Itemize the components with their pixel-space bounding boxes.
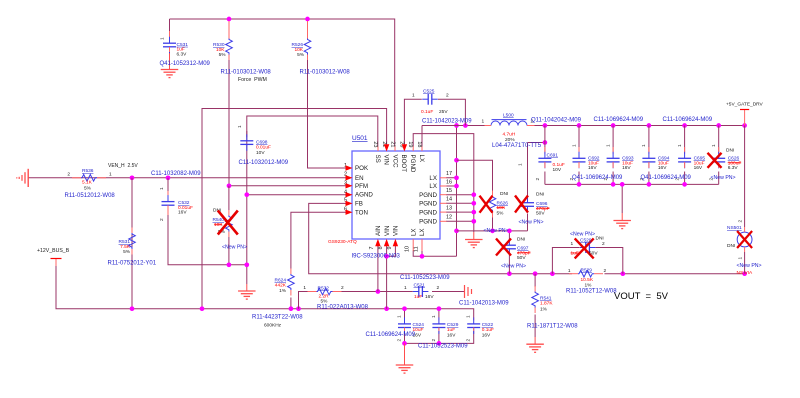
svg-text:19: 19 (407, 141, 413, 147)
ground right of C521 (432, 291, 464, 293)
svg-text:<New PN>: <New PN> (222, 245, 247, 251)
svg-text:16V: 16V (447, 333, 456, 339)
svg-text:13: 13 (446, 206, 452, 212)
wire R531 column (131, 178, 133, 309)
svg-text:2: 2 (341, 285, 344, 291)
svg-text:1: 1 (677, 144, 683, 147)
svg-text:NS501: NS501 (727, 225, 742, 231)
svg-text:R11-0512012-W08: R11-0512012-W08 (65, 193, 116, 199)
resistor R531 (131, 228, 133, 234)
svg-text:VEN_H 2.5V: VEN_H 2.5V (108, 163, 138, 169)
wire FB / VOUT rail (309, 203, 745, 273)
svg-text:10K: 10K (497, 205, 506, 211)
capacitor C532 (167, 191, 169, 198)
svg-text:LX: LX (429, 183, 437, 190)
wire C525 loop (404, 99, 465, 146)
wire VCC top rail (170, 19, 395, 147)
svg-text:<New PN>: <New PN> (737, 263, 762, 269)
svg-text:2: 2 (397, 339, 403, 342)
svg-text:TON: TON (355, 209, 368, 216)
svg-text:AIN: AIN (375, 226, 382, 236)
svg-text:16V: 16V (622, 165, 631, 171)
svg-text:<New PN>: <New PN> (570, 231, 595, 237)
svg-text:11: 11 (413, 246, 419, 252)
svg-text:C520: C520 (580, 237, 592, 243)
svg-text:18: 18 (416, 141, 422, 147)
svg-text:PGND: PGND (419, 219, 437, 226)
chassis ground left (27, 169, 29, 187)
capacitor C692 (578, 147, 580, 154)
svg-text:FB: FB (355, 201, 363, 208)
svg-text:R532: R532 (318, 285, 330, 291)
wire SS loop (247, 116, 378, 147)
svg-text:1: 1 (711, 144, 717, 147)
svg-text:16V: 16V (425, 294, 434, 300)
svg-text:<New PN>: <New PN> (711, 175, 736, 181)
svg-text:1: 1 (518, 163, 524, 166)
svg-text:GS9230-ATQ: GS9230-ATQ (328, 239, 357, 245)
svg-text:1: 1 (482, 118, 485, 124)
resistor R536 (72, 177, 81, 179)
svg-text:Q41-1069624-M09: Q41-1069624-M09 (641, 175, 692, 181)
svg-text:DNI: DNI (500, 191, 508, 197)
capacitor C521 (413, 291, 419, 293)
svg-text:1uF: 1uF (447, 327, 455, 333)
svg-text:POK: POK (355, 165, 369, 172)
wire R526 to POK pin (308, 59, 347, 168)
svg-text:L04-47A71T0-TT5: L04-47A71T0-TT5 (492, 143, 542, 149)
svg-text:17: 17 (446, 171, 452, 177)
svg-text:5.1K: 5.1K (82, 179, 93, 185)
svg-text:1%: 1% (279, 288, 287, 294)
ground below C524 (404, 343, 406, 365)
part NS501 (DNI) (737, 232, 752, 247)
svg-text:I9C-S923006-N03: I9C-S923006-N03 (352, 254, 401, 260)
capacitor C697 (DNI) (508, 239, 510, 242)
svg-text:LX: LX (429, 175, 437, 182)
svg-text:C521: C521 (414, 283, 426, 289)
svg-text:R536: R536 (82, 168, 94, 174)
svg-text:10K: 10K (214, 222, 223, 228)
svg-text:C11-1069624-M09: C11-1069624-M09 (594, 117, 644, 123)
wire PGND bus (413, 134, 474, 232)
svg-text:0.01uF: 0.01uF (256, 144, 271, 150)
wire R530 to PFM node (228, 59, 230, 186)
capacitor C525 (422, 98, 428, 100)
resistor R530 (228, 21, 230, 39)
svg-text:2: 2 (431, 339, 437, 342)
svg-text:0.1uF: 0.1uF (421, 109, 433, 115)
svg-text:5%: 5% (123, 249, 131, 255)
power +5V_GATE_DRV (744, 110, 746, 126)
svg-text:1: 1 (397, 315, 403, 318)
svg-text:PGND: PGND (419, 201, 437, 208)
resistor R540 (DNI) (228, 210, 230, 216)
wire C532 top lead (167, 178, 169, 196)
svg-text:C11-1052523-M09: C11-1052523-M09 (418, 344, 468, 350)
U501 left pin arrows (346, 165, 353, 170)
svg-text:U501: U501 (352, 135, 368, 142)
svg-text:2: 2 (67, 171, 70, 177)
svg-text:R529: R529 (581, 267, 593, 273)
capacitor C529 (438, 318, 440, 321)
svg-text:NS,VIA: NS,VIA (737, 270, 754, 276)
resistor R529 (569, 273, 578, 275)
svg-text:C525: C525 (423, 89, 435, 95)
svg-text:1: 1 (431, 315, 437, 318)
U501 top pin stubs (377, 147, 379, 152)
svg-text:2: 2 (602, 241, 605, 247)
svg-text:2: 2 (738, 220, 744, 223)
svg-text:+12V_BUS_B: +12V_BUS_B (37, 248, 70, 254)
wire PFM net (229, 185, 346, 187)
svg-text:2: 2 (159, 218, 165, 221)
svg-text:Force PWM: Force PWM (238, 77, 267, 83)
wire R540 vertical (228, 186, 230, 265)
svg-text:1uF: 1uF (414, 294, 422, 300)
svg-text:16: 16 (446, 179, 452, 185)
svg-text:R11-0103012-W08: R11-0103012-W08 (300, 70, 351, 76)
capacitor C693 (612, 147, 614, 154)
svg-text:PGND: PGND (419, 209, 437, 216)
wire C531 top lead (169, 19, 171, 36)
svg-text:PGND: PGND (419, 192, 437, 199)
svg-text:8: 8 (378, 246, 384, 249)
svg-text:C691: C691 (547, 153, 559, 159)
svg-text:1: 1 (237, 125, 243, 128)
capacitor C626 (DNI) (718, 147, 720, 154)
svg-text:1: 1 (404, 285, 407, 291)
svg-text:AGND: AGND (355, 192, 373, 199)
ground below C531 (169, 52, 171, 70)
svg-text:<New PN>: <New PN> (519, 219, 544, 225)
svg-text:Q11-1042042-M09: Q11-1042042-M09 (531, 117, 582, 123)
svg-text:C11-1069624-M09: C11-1069624-M09 (366, 332, 416, 338)
capacitor C522 (473, 318, 475, 321)
wire LX pin18 up (421, 126, 423, 147)
svg-text:50V: 50V (589, 251, 598, 257)
op-amp U501 body (352, 151, 440, 239)
svg-text:5%: 5% (297, 52, 305, 58)
svg-text:16V: 16V (588, 165, 597, 171)
inductor L500 (492, 119, 527, 121)
wire snubber tie line (457, 214, 528, 240)
svg-text:Q41-1052312-M09: Q41-1052312-M09 (160, 61, 211, 67)
resistor R626 (DNI) (492, 191, 494, 197)
svg-text:DNI: DNI (727, 243, 735, 249)
svg-text:1: 1 (159, 187, 165, 190)
wire +5V_GATE_DRV / NS501 column (744, 126, 746, 274)
svg-text:VCC: VCC (391, 155, 398, 169)
svg-text:16V: 16V (658, 165, 667, 171)
svg-text:VIN: VIN (384, 226, 391, 236)
svg-text:5%: 5% (497, 210, 505, 216)
wire LX bus (446, 126, 457, 257)
wire R532 branch (299, 292, 464, 309)
wire TON to R624 (291, 212, 346, 309)
wire cap columns top (545, 126, 719, 153)
wire C696 top branch (528, 143, 545, 197)
ground AGND (246, 284, 248, 291)
svg-text:10.5K: 10.5K (581, 277, 594, 283)
svg-text:1: 1 (641, 144, 647, 147)
wire LX pins 10-11 (413, 251, 456, 257)
svg-text:600KHz: 600KHz (264, 323, 282, 329)
svg-text:9: 9 (387, 246, 393, 249)
capacitor C531 (169, 31, 171, 39)
svg-text:4.7uH: 4.7uH (503, 131, 516, 137)
svg-text:0.1uF: 0.1uF (482, 327, 494, 333)
capacitor C691 (544, 147, 546, 154)
wire R541 branch (534, 274, 536, 337)
svg-text:1.87K: 1.87K (540, 300, 553, 306)
svg-text:DNI: DNI (517, 237, 525, 243)
svg-text:1: 1 (571, 144, 577, 147)
svg-text:LX: LX (418, 155, 425, 163)
svg-text:R11-0103012-W08: R11-0103012-W08 (221, 70, 272, 76)
svg-text:16V: 16V (694, 165, 703, 171)
svg-text:15: 15 (446, 188, 452, 194)
svg-text:1uF: 1uF (571, 251, 579, 257)
svg-text:C11-1042013-M09: C11-1042013-M09 (459, 301, 509, 307)
ground PGND bus (473, 232, 475, 240)
svg-text:VOUT = 5V: VOUT = 5V (614, 291, 669, 302)
ground below R541 (534, 337, 536, 344)
svg-text:C11-1032012-M09: C11-1032012-M09 (239, 160, 289, 166)
wire R529 net (VOUT rail continues) (572, 273, 605, 275)
svg-text:+5V_GATE_DRV: +5V_GATE_DRV (726, 102, 764, 108)
svg-text:R11-1871T12-W08: R11-1871T12-W08 (527, 324, 578, 330)
U501 bottom pin arrows (375, 239, 380, 246)
svg-text:442K: 442K (275, 282, 287, 288)
capacitor C520 (DNI) (580, 247, 586, 249)
svg-text:VIN: VIN (393, 226, 400, 236)
svg-text:25V: 25V (439, 109, 448, 115)
svg-text:VIN: VIN (383, 155, 390, 165)
svg-text:1: 1 (109, 171, 112, 177)
capacitor C695 (684, 147, 686, 154)
svg-text:7: 7 (369, 246, 375, 249)
svg-text:1: 1 (160, 37, 166, 40)
svg-text:1: 1 (466, 315, 472, 318)
svg-text:2: 2 (535, 178, 541, 181)
svg-text:1: 1 (605, 144, 611, 147)
wire AIN pin7 drop (377, 246, 379, 292)
svg-text:1: 1 (738, 257, 744, 260)
wire LX node to L500 (422, 125, 485, 127)
svg-text:1: 1 (303, 285, 306, 291)
capacitor C694 (648, 147, 650, 154)
svg-text:12: 12 (446, 215, 452, 221)
capacitor C524 (404, 318, 406, 321)
svg-text:2: 2 (466, 339, 472, 342)
resistor R532 (308, 291, 317, 293)
svg-text:5%: 5% (219, 52, 227, 58)
wire VIN pins 8-9 drop (387, 246, 396, 309)
svg-text:L500: L500 (503, 113, 514, 119)
svg-text:DNI: DNI (726, 148, 734, 154)
wire VOUT cap rail (535, 125, 745, 127)
svg-text:10V: 10V (553, 167, 562, 173)
svg-text:C11-1069624-M09: C11-1069624-M09 (663, 117, 713, 123)
svg-text:LX: LX (410, 228, 417, 236)
capacitor C696 (DNI) (527, 197, 529, 200)
svg-text:10: 10 (405, 246, 411, 252)
svg-text:1: 1 (412, 93, 415, 99)
wire VEN_H / EN net (28, 177, 346, 179)
svg-text:6.3V: 6.3V (177, 51, 188, 57)
capacitor C698 (246, 131, 248, 137)
wire C520 loop (552, 248, 622, 274)
svg-text:BOOT: BOOT (400, 155, 407, 173)
ground below C692 rail (621, 213, 623, 221)
svg-text:6.3V: 6.3V (728, 165, 739, 171)
svg-text:Q41-1069624-M09: Q41-1069624-M09 (572, 175, 623, 181)
svg-text:23: 23 (372, 141, 378, 147)
wire C697 bottom (508, 255, 510, 274)
svg-text:50V: 50V (517, 255, 526, 261)
svg-text:R11-0752012-Y01: R11-0752012-Y01 (108, 261, 157, 267)
svg-text:16V: 16V (482, 333, 491, 339)
svg-text:1: 1 (571, 241, 574, 247)
svg-text:EN: EN (355, 175, 364, 182)
svg-text:C11-1032082-M09: C11-1032082-M09 (151, 171, 201, 177)
svg-text:1: 1 (568, 268, 571, 274)
wire +12V rail (56, 263, 474, 343)
svg-text:R11-022A013-W08: R11-022A013-W08 (317, 304, 369, 310)
wire VIN feed (202, 109, 387, 309)
svg-text:C11-1042023-M09: C11-1042023-M09 (422, 118, 472, 124)
svg-text:1%: 1% (540, 307, 548, 313)
svg-text:<New PN>: <New PN> (501, 264, 526, 270)
resistor R624 (290, 269, 292, 275)
svg-text:2: 2 (604, 268, 607, 274)
svg-text:50V: 50V (536, 211, 545, 217)
U501 right pin stubs (440, 177, 447, 179)
wire cap ground rail (545, 172, 719, 214)
svg-text:SS: SS (374, 155, 381, 163)
wire AGND net (168, 135, 346, 284)
svg-text:C11-1052523-M09: C11-1052523-M09 (400, 275, 450, 281)
svg-text:2: 2 (437, 285, 440, 291)
svg-text:DNI: DNI (536, 192, 544, 198)
svg-text:5%: 5% (84, 185, 92, 191)
svg-text:<New PN>: <New PN> (484, 228, 509, 234)
svg-text:LX: LX (419, 228, 426, 236)
svg-text:R11-4423T22-W08: R11-4423T22-W08 (252, 315, 303, 321)
wire R626 top branch (457, 160, 493, 190)
svg-text:DNI: DNI (596, 236, 604, 242)
svg-text:PFM: PFM (355, 183, 368, 190)
svg-text:2: 2 (446, 93, 449, 99)
power +12V_BUS_B (55, 259, 57, 266)
svg-text:16V: 16V (178, 210, 187, 216)
svg-text:PGND: PGND (409, 155, 416, 173)
svg-text:R11-1052T12-W08: R11-1052T12-W08 (566, 289, 617, 295)
resistor R526 (307, 21, 309, 39)
svg-text:14: 14 (446, 197, 452, 203)
svg-text:10V: 10V (256, 150, 265, 156)
resistor R541 (534, 286, 536, 292)
